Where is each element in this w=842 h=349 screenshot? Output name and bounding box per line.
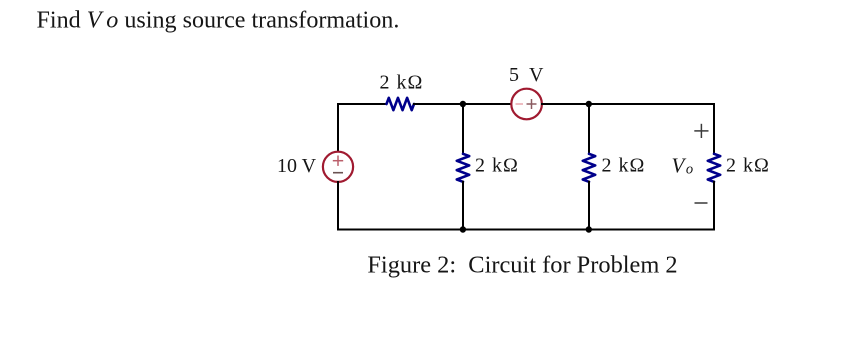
voltage source V1 10V circle [323,152,353,182]
V1 minus sign [333,172,343,174]
wire right top [713,104,715,154]
resistor R1 2 kOhm horizontal zigzag [387,98,414,110]
svg-text:2 kΩ: 2 kΩ [602,155,646,177]
wire branch2 bottom [588,182,590,230]
resistor R2 2 kOhm vertical zigzag [457,154,469,182]
node junction dot top-right [586,101,592,107]
svg-text:Figure 2: Circuit for Problem: Figure 2: Circuit for Problem 2 [367,251,677,278]
wire top-left segment [338,103,387,105]
wire bottom rail [338,229,714,231]
V1 plus sign [333,156,343,166]
wire branch1 top [462,104,464,154]
wire top-right segment [542,103,714,105]
wire top between R1 and 5V source [414,103,511,105]
svg-text:2 kΩ: 2 kΩ [475,155,519,177]
wire branch1 bottom [462,182,464,230]
output minus polarity mark [695,202,708,204]
V2 minus sign [516,103,524,105]
output plus polarity mark [694,124,708,138]
node junction dot top-left [460,101,466,107]
svg-text:2 kΩ: 2 kΩ [726,155,770,177]
wire right bottom [713,182,715,230]
wire branch2 top [588,104,590,154]
resistor R4 2 kOhm vertical zigzag (output) [708,154,720,182]
node junction dot bottom-left [460,226,466,232]
wire left bottom (source to bottom rail) [337,182,339,230]
voltage source V2 5V circle [511,89,542,120]
V2 plus sign [527,99,537,109]
resistor R3 2 kOhm vertical zigzag [583,154,595,182]
wire left top (node to 10V source) [337,104,339,152]
node junction dot bottom-right [586,226,592,232]
svg-text:5 V: 5 V [509,64,544,86]
svg-text:Find V o using source transfor: Find V o using source transformation. [37,8,400,34]
svg-text:10 V: 10 V [277,155,317,177]
svg-text:2 kΩ: 2 kΩ [380,72,424,94]
